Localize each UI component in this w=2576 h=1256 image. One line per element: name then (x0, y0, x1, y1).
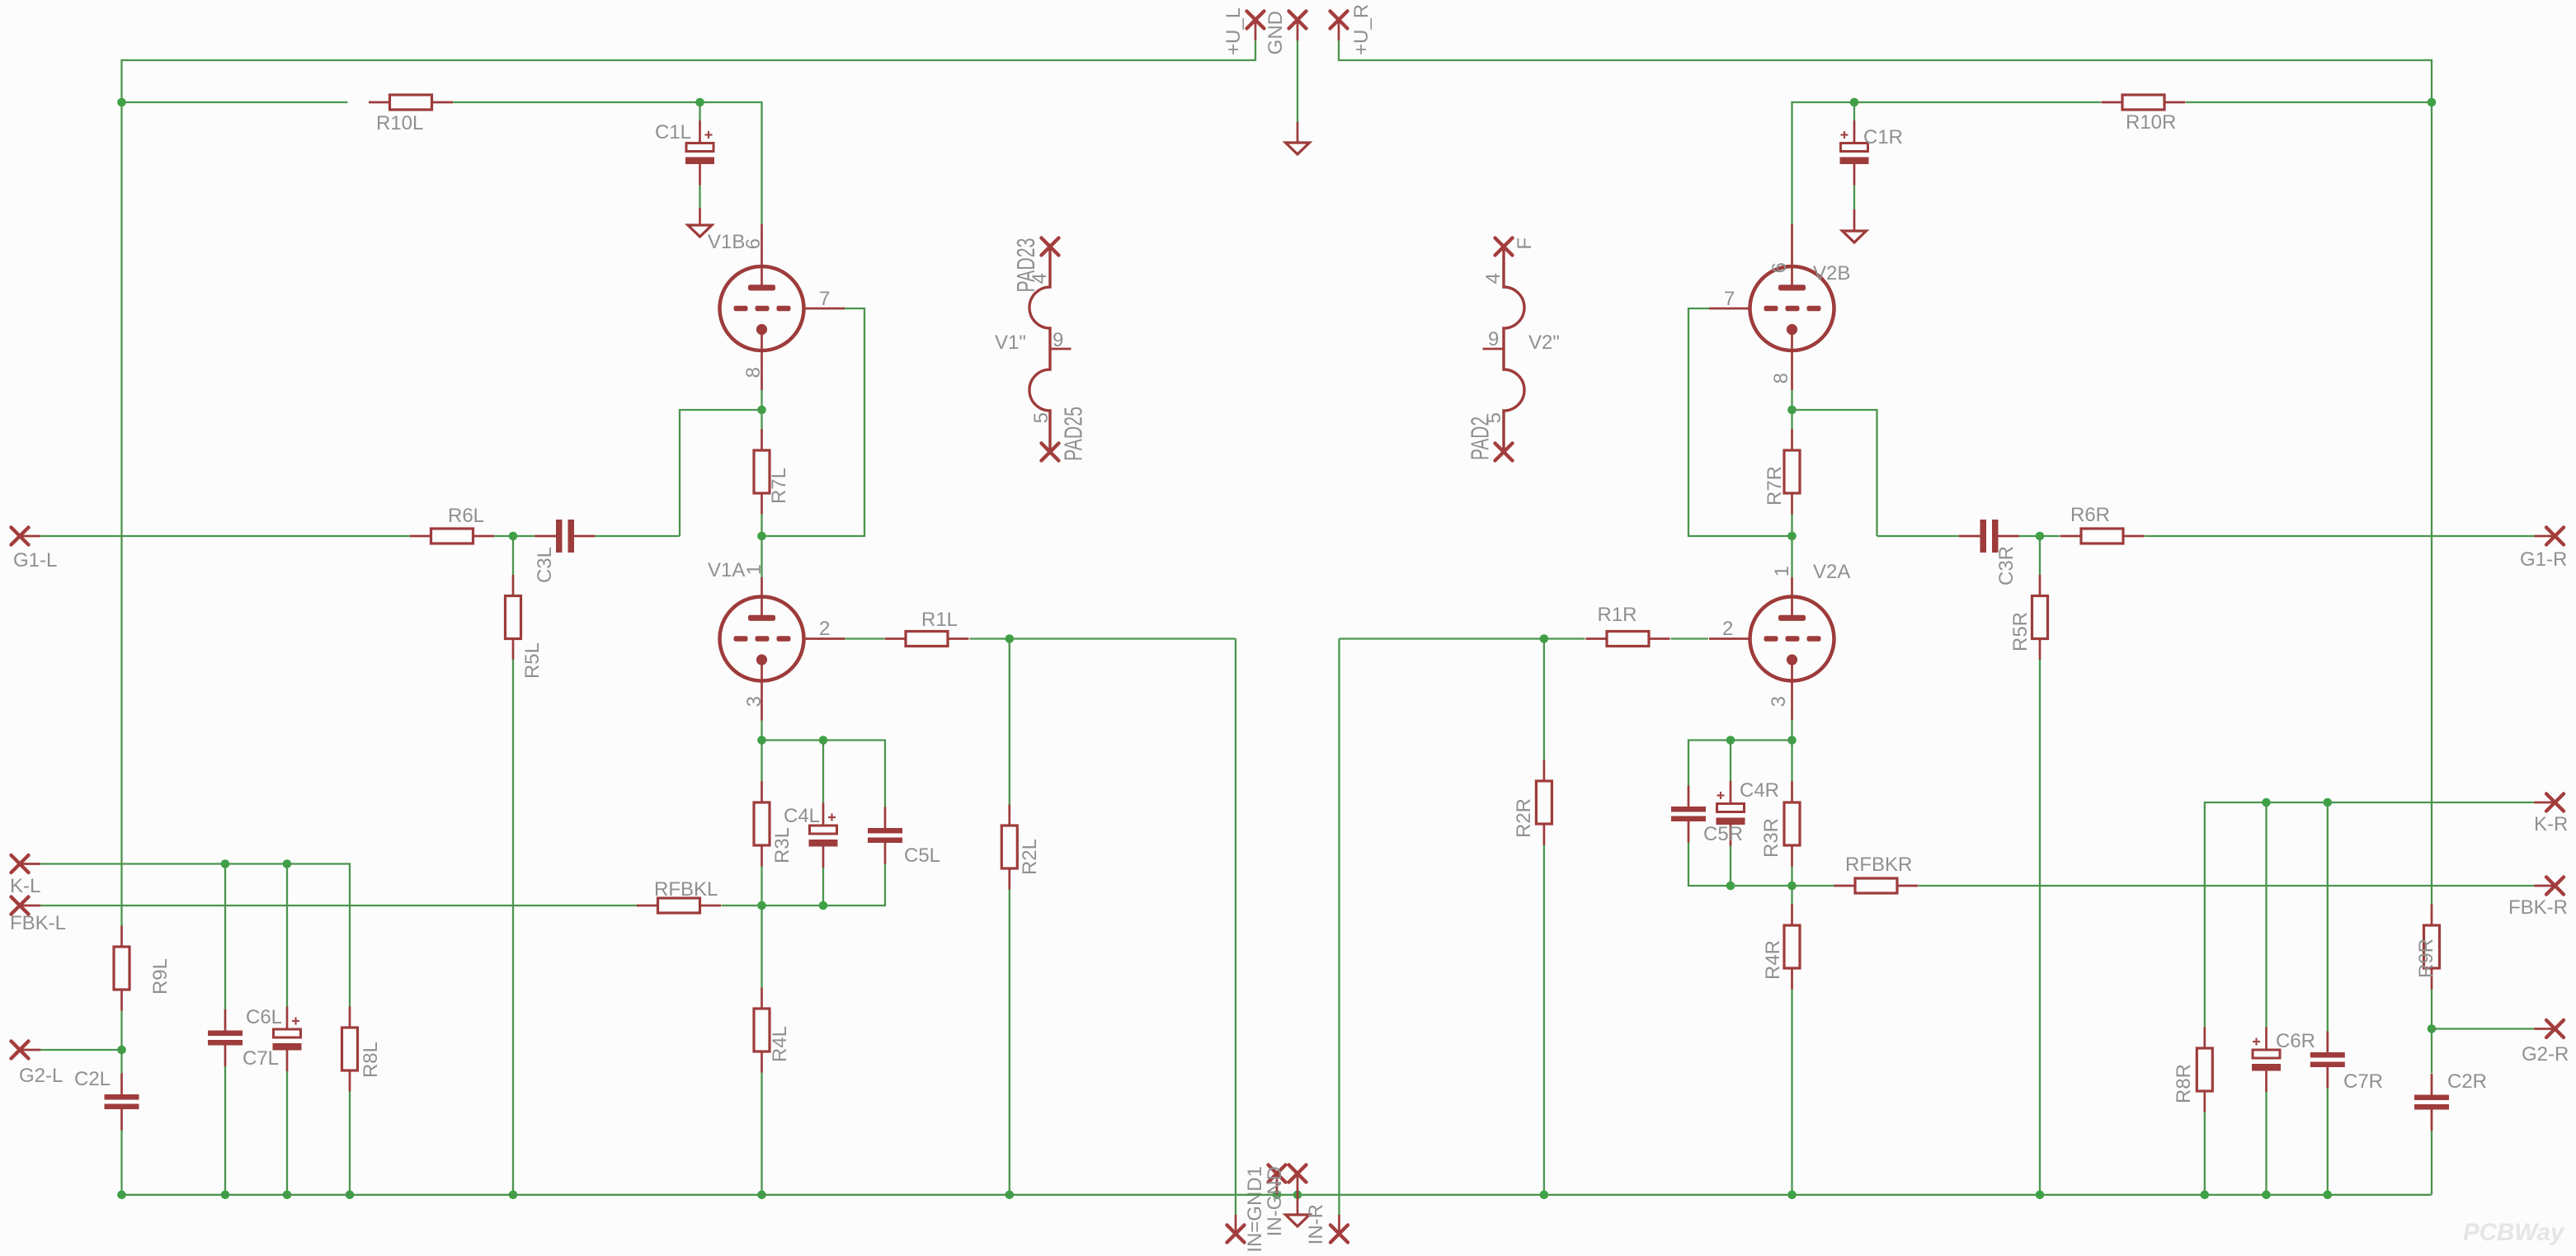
wire cathode rail top (762, 741, 886, 807)
pin GND (1289, 12, 1307, 29)
wire +U_R top bus (1339, 40, 2432, 102)
gnd lead (1297, 122, 1299, 143)
node G2-R junction (2428, 1024, 2437, 1033)
wire C3L right (596, 535, 680, 537)
node C7L bus junction (221, 1191, 230, 1200)
wire V1B grid to anode node (762, 308, 865, 536)
wire C7R bottom (2327, 1089, 2329, 1195)
svg-text:4: 4 (1029, 273, 1051, 284)
capacitor C1R (1840, 120, 1869, 186)
pin lead IN gnd (1297, 1174, 1299, 1215)
node C6R top junction (2262, 798, 2271, 807)
wire R7R top (1791, 410, 1792, 432)
node IN-GND bus junction (1273, 1191, 1282, 1200)
node C7R bus junction (2324, 1191, 2333, 1200)
wire R7R bottom (1791, 515, 1792, 537)
wire R10L to C1L to V1B (453, 102, 762, 224)
node R2R junction (1540, 634, 1549, 643)
svg-text:R9L: R9L (149, 958, 172, 995)
node C2L bus junction (117, 1191, 126, 1200)
resistor R3L (754, 782, 770, 867)
svg-text:3: 3 (743, 696, 765, 707)
triode V1B (720, 224, 845, 390)
wire R3R top (1791, 741, 1792, 782)
wire C4L bottom (822, 868, 824, 906)
svg-text:K-R: K-R (2534, 813, 2568, 835)
node C4L top junction (819, 736, 828, 745)
svg-text:9: 9 (1053, 329, 1063, 351)
node R3L bottom junction (757, 901, 766, 910)
wire V1A anode (761, 536, 762, 577)
pin FBK-L (12, 897, 29, 915)
wire bottom bus (122, 1194, 2432, 1196)
svg-text:3: 3 (1768, 696, 1790, 707)
svg-text:R1R: R1R (1598, 604, 1637, 626)
wire C5R bottom (1688, 843, 1792, 887)
svg-text:F: F (1514, 238, 1536, 250)
node R2L junction (1005, 634, 1015, 643)
svg-text:C2R: C2R (2447, 1070, 2487, 1093)
svg-text:C6L: C6L (246, 1006, 282, 1028)
pin K-L (12, 855, 29, 873)
wire R3L bottom (761, 867, 762, 906)
wire C2L bottom (120, 1131, 122, 1195)
resistor R3R (1784, 782, 1800, 867)
wire RFBKR to FBK-R (1919, 885, 2535, 887)
pin IN=GND1 (1227, 1225, 1245, 1243)
svg-text:C4R: C4R (1740, 779, 1779, 802)
resistor R8L (342, 1007, 358, 1092)
wire R5R down to bus (2039, 660, 2041, 1195)
resistor R7L (754, 430, 770, 515)
svg-text:V2": V2" (1528, 332, 1560, 354)
svg-text:FBK-L: FBK-L (10, 912, 66, 934)
node cathode junction R3R (1787, 736, 1797, 745)
resistor R4L (754, 988, 770, 1073)
pin IN-GND (1269, 1165, 1286, 1183)
svg-text:R6L: R6L (448, 505, 484, 527)
capacitor C3L (535, 520, 596, 553)
svg-text:6: 6 (1768, 262, 1791, 273)
wire R7L top (761, 410, 762, 432)
wire R5R top (2039, 536, 2041, 576)
node V1A anode junction (757, 532, 766, 541)
svg-text:R8L: R8L (360, 1042, 382, 1078)
node C7L top junction (221, 859, 230, 868)
wire R4L bottom (761, 1073, 762, 1195)
wire cathode to C3R corner (1792, 410, 1877, 536)
wire R2L top (1009, 639, 1010, 805)
svg-text:G2-R: G2-R (2522, 1043, 2569, 1065)
pin +U_R (1330, 12, 1348, 29)
svg-text:V1B: V1B (708, 231, 745, 253)
wire R1L to input drop (970, 637, 1236, 639)
node C4R top junction (1726, 736, 1735, 745)
resistor RFBKL (637, 898, 721, 913)
wire C6L bottom (286, 1071, 288, 1195)
wire K-L line (40, 864, 350, 1007)
node C4L bottom junction (819, 901, 828, 910)
pin FBK-R (2546, 877, 2564, 895)
capacitor C5L (868, 807, 902, 864)
resistor R10L (369, 95, 453, 110)
svg-text:7: 7 (819, 288, 830, 310)
resistor R9L (114, 926, 130, 1011)
svg-text:8: 8 (742, 367, 765, 378)
node R5L bus junction (509, 1191, 518, 1200)
svg-text:V1": V1" (995, 332, 1026, 354)
wire V2A cathode (1791, 721, 1792, 741)
svg-text:1: 1 (1771, 566, 1793, 576)
wire V1A cathode (761, 721, 762, 741)
node C6R bus junction (2262, 1191, 2271, 1200)
wire C1L top (699, 102, 700, 120)
pin IN bus gnd (1289, 1165, 1307, 1183)
ground IN arrow (1286, 1215, 1310, 1226)
svg-text:6: 6 (742, 238, 765, 249)
wire G1-R to R6R (2145, 535, 2535, 537)
triode V2A (1709, 577, 1834, 721)
svg-text:R3L: R3L (771, 827, 794, 863)
capacitor C7L (208, 1009, 243, 1066)
svg-text:R5R: R5R (2009, 612, 2032, 652)
svg-text:G2-L: G2-L (19, 1065, 63, 1087)
svg-text:5: 5 (1030, 412, 1053, 423)
wire GND drop (1297, 40, 1298, 122)
wire left rail vertical (120, 102, 122, 926)
wire R10L left (122, 101, 348, 103)
wire R2R bottom (1543, 845, 1545, 1195)
wire cathode rail top R (1688, 741, 1792, 786)
wire V2B cathode (1791, 390, 1792, 410)
svg-text:R10L: R10L (376, 112, 423, 134)
resistor RFBKR (1834, 878, 1919, 893)
capacitor C6L (273, 1007, 302, 1072)
node V1B cathode junction (757, 406, 766, 415)
wire R6R to C3R (2018, 535, 2060, 537)
triode V2B (1709, 224, 1834, 390)
svg-text:R5L: R5L (521, 642, 544, 679)
wire C4R top (1730, 741, 1731, 782)
svg-text:V2A: V2A (1813, 561, 1850, 583)
gnd lead C1R (1853, 209, 1856, 231)
wire V2B grid to anode node (1688, 308, 1792, 536)
wire R2R top (1543, 639, 1545, 760)
wire FBK-L to RFBKL (40, 905, 637, 906)
svg-text:8: 8 (1770, 373, 1792, 383)
node C6L top junction (283, 859, 292, 868)
wire input drop IN-L (1235, 639, 1236, 1216)
node R8L bus junction (346, 1191, 355, 1200)
svg-text:R2R: R2R (1513, 798, 1535, 838)
node V2A anode junction (1787, 532, 1797, 541)
wire C4R bottom (1730, 846, 1731, 887)
resistor R1L (885, 632, 969, 647)
capacitor C7R (2310, 1032, 2345, 1089)
wire R4L top (761, 906, 762, 988)
wire R2L bottom (1009, 890, 1010, 1195)
capacitor C2L (105, 1074, 139, 1131)
svg-text:9: 9 (1488, 328, 1499, 350)
wire C7L drop (224, 864, 226, 1010)
capacitor C4R (1717, 781, 1745, 846)
svg-text:G1-L: G1-L (13, 549, 57, 572)
node R2R bus junction (1540, 1191, 1549, 1200)
capacitor C5R (1671, 786, 1706, 843)
node G2-L junction (117, 1046, 126, 1055)
wire right rail vertical (2431, 102, 2432, 905)
pin G1-L (12, 528, 29, 545)
svg-text:GND: GND (1264, 11, 1287, 54)
node left rail R10L junction (117, 98, 126, 107)
wire cathode to C3L corner (680, 410, 762, 536)
svg-text:IN=GND1: IN=GND1 (1244, 1166, 1266, 1253)
capacitor C3R (1959, 520, 2019, 553)
pin PAD23 (1042, 238, 1059, 256)
pin G2-R (2546, 1020, 2564, 1037)
wire V1A grid to R1L (845, 637, 884, 639)
node C4R bottom junction (1726, 882, 1735, 891)
svg-text:R4R: R4R (1762, 940, 1784, 980)
resistor R9R (2424, 905, 2440, 990)
svg-text:C1L: C1L (655, 121, 691, 143)
wire G2-R to rail (2432, 1028, 2535, 1029)
svg-text:R2L: R2L (1019, 839, 1041, 875)
wire V2A grid to R1R (1671, 637, 1709, 639)
svg-text:7: 7 (1724, 288, 1735, 310)
wire R5L top (512, 536, 514, 576)
svg-text:R4L: R4L (769, 1026, 791, 1062)
svg-text:K-L: K-L (10, 875, 40, 897)
wire R3L top (761, 741, 762, 782)
svg-text:R6R: R6R (2070, 504, 2110, 526)
node R4R bus junction (1787, 1191, 1797, 1200)
wire C6L drop (286, 864, 288, 1007)
ground C1R arrow (1843, 231, 1867, 242)
pin lead IN=GND1 (1235, 1215, 1237, 1234)
resistor R5L (506, 575, 521, 660)
svg-text:2: 2 (1722, 618, 1733, 640)
resistor R6L (410, 529, 494, 543)
svg-text:C3L: C3L (534, 547, 556, 583)
resistor R4R (1784, 905, 1800, 990)
svg-text:PAD25: PAD25 (1059, 407, 1088, 461)
wire C7R drop (2327, 802, 2329, 1032)
wire R5L down to bus (512, 660, 514, 1195)
wire C2R top (2431, 1029, 2432, 1074)
svg-text:FBK-R: FBK-R (2508, 896, 2568, 919)
wire R8L bottom (349, 1092, 351, 1195)
node R3R bottom junction (1787, 882, 1797, 891)
triode V1A (720, 577, 845, 721)
node C1R junction (1850, 98, 1859, 107)
ground GND arrow (1286, 143, 1310, 154)
svg-text:IN-GND: IN-GND (1264, 1166, 1286, 1236)
resistor R5R (2032, 575, 2048, 660)
capacitor C6R (2252, 1028, 2281, 1093)
svg-text:C7R: C7R (2343, 1070, 2383, 1093)
resistor R8R (2197, 1028, 2212, 1113)
svg-text:IN-R: IN-R (1305, 1204, 1327, 1244)
ground C1L arrow (688, 225, 712, 237)
wire C5L bottom (762, 864, 886, 906)
svg-text:V1A: V1A (708, 559, 745, 581)
resistor R10R (2102, 95, 2186, 110)
wire G1-L to R6L (40, 535, 410, 537)
node R8R bus junction (2201, 1191, 2210, 1200)
svg-text:R7L: R7L (768, 468, 790, 504)
pin +U_L (1247, 12, 1264, 29)
wire V1B cathode (761, 390, 762, 410)
heater V2" (1483, 247, 1525, 452)
wire C3R left (1877, 535, 1960, 537)
node cathode junction R3L (757, 736, 766, 745)
svg-text:G1-R: G1-R (2520, 548, 2567, 571)
node R5R bus junction (2036, 1191, 2045, 1200)
wire C1R bottom (1853, 186, 1855, 210)
svg-text:C1R: C1R (1863, 126, 1903, 148)
capacitor C1L (685, 120, 714, 186)
wire C7L bottom (224, 1066, 226, 1195)
capacitor C4L (809, 803, 838, 868)
wire +U_L top bus (122, 40, 1256, 102)
resistor R6R (2060, 529, 2145, 543)
svg-text:RFBKL: RFBKL (654, 878, 718, 901)
svg-text:RFBKR: RFBKR (1845, 854, 1912, 876)
svg-text:2: 2 (819, 618, 830, 640)
svg-text:R9R: R9R (2415, 938, 2437, 978)
pin lead IN-R (1338, 1215, 1340, 1234)
svg-text:C6R: C6R (2276, 1030, 2315, 1052)
resistor R7R (1784, 430, 1800, 515)
svg-text:PCBWay: PCBWay (2463, 1219, 2565, 1246)
svg-text:+U_L: +U_L (1222, 7, 1245, 55)
wire RFBKL to rail (722, 905, 762, 906)
wire R10R to C1R to V2B (1792, 102, 2102, 224)
wire R7L bottom (761, 515, 762, 537)
wire input drop IN-R (1338, 639, 1340, 1216)
resistor R2L (1001, 805, 1017, 890)
svg-text:R3R: R3R (1760, 818, 1782, 858)
svg-text:R8R: R8R (2173, 1064, 2195, 1103)
wire C6R drop (2265, 802, 2267, 1028)
wire R3R bottom (1791, 867, 1792, 887)
wire R1R to input drop (1340, 637, 1585, 639)
wire C1L bottom (699, 186, 700, 209)
pin G2-L (12, 1042, 29, 1059)
svg-text:C2L: C2L (74, 1068, 111, 1090)
pin K-R (2546, 794, 2564, 811)
wire R6L to C3L (494, 535, 535, 537)
wire K-R line (2205, 802, 2535, 1028)
wire rail to RFBKR (1792, 885, 1834, 887)
wire R10R right (2186, 101, 2432, 103)
wire C1R top (1853, 102, 1855, 120)
node C7R top junction (2324, 798, 2333, 807)
resistor R1R (1586, 632, 1670, 647)
node C6L bus junction (283, 1191, 292, 1200)
node R2L bus junction (1005, 1191, 1015, 1200)
pin lead IN-GND (1276, 1174, 1279, 1195)
heater V1" (1029, 247, 1071, 452)
gnd lead C1L (699, 208, 701, 225)
pin F (1495, 238, 1513, 256)
svg-text:C5L: C5L (904, 844, 940, 867)
capacitor C2R (2414, 1074, 2449, 1131)
svg-text:R10R: R10R (2126, 111, 2176, 134)
wire R4R bottom (1791, 990, 1792, 1195)
node V2B cathode junction (1787, 406, 1797, 415)
node R4L bus junction (757, 1191, 766, 1200)
wire C2L top (120, 1050, 122, 1074)
pin PAD25 (1042, 444, 1059, 461)
pin IN-R (1330, 1225, 1348, 1243)
svg-text:C5R: C5R (1703, 823, 1743, 845)
wire C2R bottom (2431, 1131, 2432, 1195)
node R5R junction (2036, 532, 2045, 541)
svg-text:R7R: R7R (1764, 466, 1786, 506)
svg-text:C3R: C3R (1995, 546, 2018, 586)
wire C4L top (822, 741, 824, 803)
wire R9L to G2L node (120, 1011, 122, 1051)
wire R4R top (1791, 886, 1792, 905)
svg-text:4: 4 (1482, 273, 1505, 284)
svg-text:R1L: R1L (921, 609, 958, 631)
node IN gnd arrow junction (1293, 1191, 1302, 1200)
resistor R2R (1536, 760, 1552, 845)
svg-text:C4L: C4L (784, 805, 820, 827)
node R5L junction (509, 532, 518, 541)
pin PAD2 (1495, 444, 1513, 461)
wire R8R bottom (2204, 1113, 2206, 1195)
svg-text:PAD2: PAD2 (1466, 416, 1495, 460)
wire C6R bottom (2265, 1092, 2267, 1195)
wire G2-L to rail (40, 1049, 122, 1051)
svg-text:C7L: C7L (243, 1047, 279, 1070)
svg-text:+U_R: +U_R (1350, 4, 1373, 55)
wire V2A anode (1791, 536, 1792, 577)
node right rail R10R junction (2428, 98, 2437, 107)
pin G1-R (2546, 528, 2564, 545)
wire R9R to G2R node (2431, 990, 2432, 1029)
node C1L junction (695, 98, 704, 107)
svg-text:V2B: V2B (1813, 262, 1850, 285)
